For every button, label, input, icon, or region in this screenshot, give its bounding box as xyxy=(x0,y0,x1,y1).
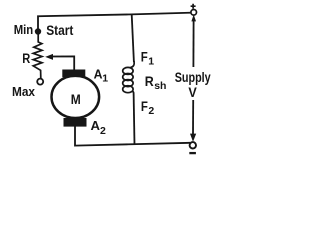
svg-text:A: A xyxy=(91,118,101,133)
svg-text:Start: Start xyxy=(46,23,74,38)
svg-text:F: F xyxy=(141,99,148,114)
motor top brush xyxy=(62,70,85,78)
svg-text:sh: sh xyxy=(154,80,166,92)
svg-text:Min: Min xyxy=(14,23,34,37)
svg-text:1: 1 xyxy=(102,73,108,85)
motor bottom brush xyxy=(64,118,87,127)
inductor Rsh shunt field coil loops xyxy=(131,61,135,68)
svg-text:2: 2 xyxy=(148,105,154,117)
wiper arrow head xyxy=(45,54,53,60)
terminal - circle xyxy=(190,142,196,148)
wire supply upper segment xyxy=(192,21,194,67)
svg-text:R: R xyxy=(22,51,30,66)
wire shunt branch lower xyxy=(133,93,136,145)
supply arrow down xyxy=(190,134,196,142)
svg-text:Max: Max xyxy=(12,84,36,99)
terminal + circle xyxy=(191,10,197,16)
label plus xyxy=(191,4,196,9)
node Min junction dot xyxy=(35,28,41,34)
motor M armature circle xyxy=(52,76,100,118)
svg-text:M: M xyxy=(71,91,81,107)
wire shunt branch upper xyxy=(132,14,134,62)
wire supply lower segment xyxy=(192,100,194,135)
label minus xyxy=(189,152,196,154)
svg-text:Supply: Supply xyxy=(175,69,211,85)
wire top bus from junction to + terminal xyxy=(38,13,194,33)
resistor R starting rheostat zigzag xyxy=(33,33,42,78)
terminal Max circle xyxy=(37,79,43,85)
svg-text:1: 1 xyxy=(148,55,154,67)
svg-text:V: V xyxy=(188,84,197,100)
wire wiper arm to armature top xyxy=(49,56,74,71)
svg-text:R: R xyxy=(145,73,154,89)
svg-text:A: A xyxy=(94,66,103,81)
svg-text:2: 2 xyxy=(100,125,106,137)
supply arrow up xyxy=(191,15,196,22)
wire armature bottom to bottom bus to - terminal xyxy=(75,126,190,146)
svg-text:F: F xyxy=(141,50,148,65)
